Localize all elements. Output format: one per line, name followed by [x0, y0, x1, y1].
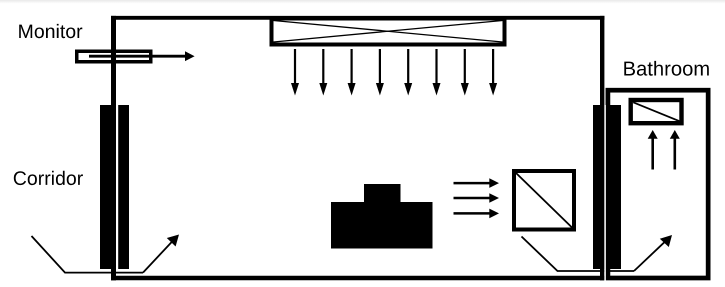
- bathroom exhaust arrow 2: [670, 130, 680, 170]
- diffuser X diagonal 1: [274, 21, 503, 43]
- bathroom door airflow arrow: [634, 235, 672, 271]
- return grille diagonal: [516, 173, 572, 228]
- room left wall: [111, 16, 116, 281]
- room top wall: [111, 16, 605, 20]
- corridor door undercut airflow line: [32, 236, 144, 273]
- bathroom exhaust arrow 1: [648, 130, 658, 170]
- supply air diffuser (crossed rectangle on ceiling wall): [272, 19, 505, 45]
- left door leaf bar (corridor door): [118, 105, 129, 269]
- bathroom outline walls: [608, 90, 708, 278]
- supply airflow arrow 1: [291, 49, 299, 96]
- supply airflow arrow 8: [489, 49, 497, 96]
- left door jamb bar (corridor door): [100, 105, 116, 269]
- bathroom door frame gap: [604, 105, 606, 281]
- exhaust flow arrow 3: [454, 209, 500, 219]
- right door jamb bar (bathroom door): [593, 105, 604, 269]
- room right wall: [600, 16, 604, 281]
- bathroom door undercut airflow line: [522, 237, 635, 272]
- supply airflow arrow 6: [433, 49, 441, 96]
- label Bathroom: [624, 61, 709, 76]
- room bottom wall: [111, 276, 605, 281]
- diffuser X diagonal 2: [274, 21, 503, 43]
- supply airflow arrow 5: [404, 49, 412, 96]
- supply airflow arrow 3: [348, 49, 356, 96]
- bathroom exhaust grille diagonal: [633, 102, 679, 121]
- right door leaf bar (bathroom door): [606, 105, 621, 269]
- label Monitor: [19, 24, 82, 38]
- exhaust flow arrow 2: [454, 193, 500, 203]
- workstation top block: [364, 184, 401, 202]
- workstation base block: [331, 202, 433, 249]
- label Corridor: [14, 171, 83, 185]
- supply airflow arrow 7: [461, 49, 469, 96]
- monitor box: [77, 51, 151, 62]
- monitor sampling arrow: [89, 51, 195, 61]
- supply airflow arrow 2: [319, 49, 327, 96]
- return air grille (square with diagonal): [514, 171, 574, 230]
- bathroom exhaust grille: [631, 100, 682, 123]
- exhaust flow arrow 1: [454, 178, 500, 188]
- supply airflow arrow 4: [376, 49, 384, 96]
- corridor door airflow arrow: [143, 235, 179, 273]
